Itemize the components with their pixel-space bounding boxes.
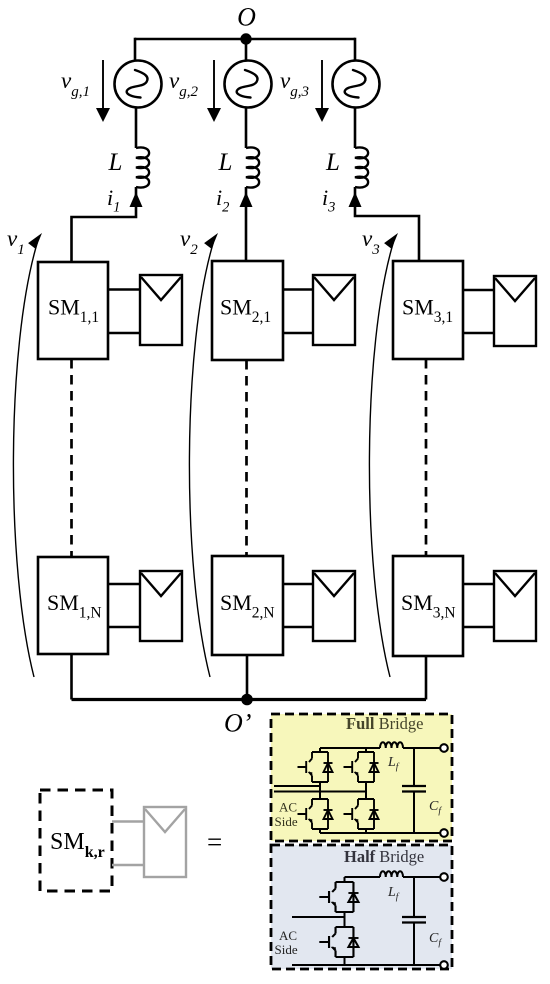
svg-text:i3: i3	[322, 185, 335, 216]
svg-text:SM2,1: SM2,1	[220, 295, 271, 327]
wire bus to source 1	[134, 38, 137, 61]
svg-text:vg,3: vg,3	[280, 68, 309, 100]
full bridge output terminal top	[440, 744, 448, 752]
inductor L1	[136, 147, 149, 187]
arrow vg1 direction	[96, 60, 110, 122]
half bridge blue box	[271, 845, 452, 969]
svg-text:SM3,N: SM3,N	[401, 590, 456, 622]
svg-text:vg,2: vg,2	[169, 68, 198, 100]
svg-text:SM3,1: SM3,1	[402, 295, 453, 327]
dashed wire column 1	[70, 359, 73, 556]
PV panel of SM2,1	[313, 275, 355, 345]
inductor L3	[355, 147, 368, 187]
current arrow i1	[130, 192, 143, 207]
half bridge output terminal bottom	[440, 961, 448, 969]
full bridge transistor Q3 (bottom left)	[298, 799, 333, 829]
svg-text:v3: v3	[362, 226, 380, 258]
PV panel of SM2,N	[313, 571, 355, 641]
svg-text:v1: v1	[7, 226, 25, 258]
half bridge transistor Q1 (top)	[319, 882, 358, 912]
AC source vg3	[333, 61, 380, 108]
svg-text:vg,1: vg,1	[61, 68, 90, 100]
submodule SM3,N	[393, 556, 463, 656]
legend gray PV panel	[144, 807, 186, 877]
wires SM1,N to PV	[108, 584, 140, 627]
legend wires SMk,r to PV	[112, 822, 144, 866]
wires SM2,1 to PV	[283, 290, 313, 334]
half bridge leg wires	[344, 877, 346, 965]
svg-text:O: O	[237, 3, 256, 32]
curved arrow v3	[369, 233, 398, 677]
wires SM3,1 to PV	[463, 290, 494, 333]
full bridge output terminal bottom	[440, 829, 448, 837]
full bridge leg wires	[320, 748, 366, 833]
full bridge bottom rail wire	[320, 832, 440, 834]
full bridge top rail wire	[320, 747, 440, 749]
wire source2 to L2	[245, 108, 248, 149]
inductor L2	[246, 147, 259, 187]
wire SM3,N to bottom bus	[425, 656, 428, 700]
svg-text:Half Bridge: Half Bridge	[344, 847, 424, 866]
svg-text:=: =	[207, 827, 222, 857]
svg-text:AC: AC	[279, 928, 297, 943]
AC source vg1	[115, 61, 162, 108]
full bridge AC side wires	[274, 786, 366, 792]
wire source3 to L3	[354, 108, 357, 149]
wire L1 to SM11	[72, 187, 137, 262]
svg-text:v2: v2	[180, 226, 198, 258]
arrow vg3 direction	[315, 60, 329, 122]
wires SM3,N to PV	[463, 584, 494, 627]
svg-text:SM2,N: SM2,N	[220, 590, 275, 622]
arrow vg2 direction	[207, 60, 221, 122]
wires SM2,N to PV	[283, 584, 313, 627]
svg-text:SMk,r: SMk,r	[50, 829, 105, 861]
submodule SM1,N	[38, 557, 108, 654]
legend submodule SMk,r dashed box	[40, 790, 112, 891]
PV panel of SM3,1	[494, 276, 536, 346]
wire bottom bus	[72, 698, 427, 701]
PV panel of SM3,N	[494, 571, 536, 641]
full bridge capacitor Cf	[402, 748, 426, 833]
dashed wire column 3	[425, 359, 428, 555]
PV panel of SM1,N	[140, 571, 182, 641]
full bridge filter inductor Lf	[380, 742, 403, 748]
svg-text:SM1,1: SM1,1	[48, 295, 99, 327]
current arrow i2	[240, 192, 253, 207]
node O junction dot	[240, 33, 251, 44]
submodule SM3,1	[393, 261, 463, 359]
node O' junction dot	[241, 694, 253, 706]
submodule SM2,N	[212, 556, 283, 655]
wire bus to source 3	[354, 38, 357, 61]
svg-text:Side: Side	[275, 942, 298, 957]
svg-text:O’: O’	[224, 709, 251, 738]
svg-text:L: L	[218, 149, 233, 176]
wire bus to source 2	[245, 39, 248, 61]
wires SM1,1 to PV	[108, 290, 140, 334]
current arrow i3	[349, 192, 362, 207]
svg-text:L: L	[108, 149, 123, 176]
wire source1 to L1	[135, 108, 138, 149]
half bridge capacitor Cf	[402, 877, 426, 965]
half bridge output terminal top	[440, 873, 448, 881]
svg-text:Full Bridge: Full Bridge	[346, 714, 423, 733]
wire L3 to SM31	[355, 187, 419, 261]
svg-text:SM1,N: SM1,N	[47, 590, 102, 622]
PV panel of SM1,1	[140, 275, 182, 345]
svg-text:L: L	[325, 149, 340, 176]
svg-text:i1: i1	[107, 185, 120, 216]
svg-text:AC: AC	[279, 800, 297, 815]
full bridge transistor Q2 (top right)	[344, 752, 379, 782]
full bridge transistor Q1 (top left)	[298, 752, 333, 782]
half bridge filter inductor Lf	[380, 871, 403, 877]
dashed wire column 2	[245, 360, 248, 555]
half bridge bottom rail wire	[292, 964, 440, 966]
AC source vg2	[225, 61, 272, 108]
half bridge AC side wires	[292, 916, 345, 918]
svg-text:i2: i2	[216, 185, 229, 216]
wire top bus	[135, 38, 355, 41]
svg-text:Side: Side	[275, 814, 298, 829]
submodule SM1,1	[38, 262, 108, 359]
curved arrow v2	[189, 233, 218, 677]
wire SM1,N to bottom bus	[70, 654, 73, 700]
full bridge yellow box	[271, 714, 452, 841]
half bridge top rail wire	[345, 876, 441, 878]
half bridge transistor Q2 (bottom)	[319, 927, 358, 957]
wire SM2,N to bottom bus	[246, 655, 249, 700]
submodule SM2,1	[212, 261, 283, 360]
full bridge transistor Q4 (bottom right)	[344, 799, 379, 829]
wire L2 to SM21	[245, 187, 248, 261]
curved arrow v1	[13, 233, 42, 677]
